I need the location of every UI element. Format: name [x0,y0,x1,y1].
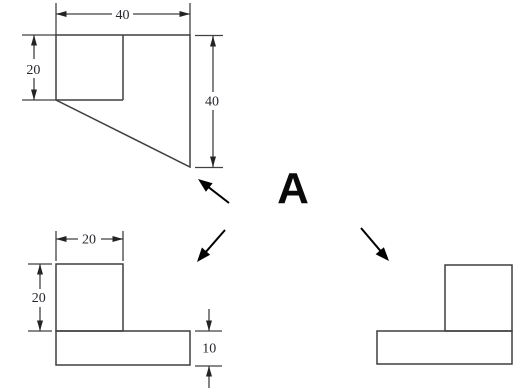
dim 40 right: dimension line [212,36,214,167]
dim 10 right: bottom extension line [195,365,222,367]
svg-text:40: 40 [205,95,219,110]
dim 20 left (side view): dimension line [39,264,41,331]
svg-text:20: 20 [26,63,40,78]
pointer arrow to front view: head [198,179,213,192]
side view base rectangle [56,331,190,365]
pointer arrow to pictorial view: head [376,247,389,261]
dim 20 left (side view): bottom extension line [28,330,52,332]
svg-text:20: 20 [82,233,96,248]
dim 40 top: left extension line [55,3,57,35]
dim 10 right: upper leader line [208,309,210,331]
front view inner horizontal edge [56,99,123,101]
dim 40 top: dimension line [56,13,190,15]
pointer arrow to pictorial view: shaft [361,228,382,253]
dim 20 left: up arrowhead [31,35,37,46]
dim 10 right: top extension line [195,330,222,332]
dim 20 left (side view): top extension line [28,263,52,265]
dim 40 right: up arrowhead [210,36,216,47]
dim 20 top (side view): left arrowhead [56,236,67,242]
dim 20 left (side view): up arrowhead [37,264,43,275]
dim 10 right: lower leader line [208,366,210,388]
dim 10 right: up arrowhead [206,366,212,377]
side view upright rectangle [56,264,123,331]
dim 10 right: down arrowhead [206,321,212,332]
front view outline [56,35,190,167]
pictorial view upright square [445,265,512,331]
dim 20 top (side view): left extension line [55,231,57,261]
svg-text:A: A [277,164,309,213]
pictorial view base rectangle [377,331,512,364]
dim 40 right: down arrowhead [210,157,216,168]
dim 20 top (side view): right extension line [122,231,124,261]
pointer arrow to side view: head [197,248,210,263]
dim 40 right: top extension line [195,35,223,37]
svg-text:10: 10 [202,341,216,356]
front view inner vertical edge [122,35,124,100]
dim 40 right: bottom extension line [195,167,223,169]
dim 20 left: bottom extension line [22,99,56,101]
dim 40 top: right arrowhead [180,11,191,17]
svg-text:20: 20 [32,291,46,306]
pointer arrow to front view: shaft [206,185,229,203]
dim 40 top: right extension line [189,3,191,35]
pointer arrow to side view: shaft [204,230,225,254]
svg-text:40: 40 [116,8,130,23]
dim 20 top (side view): dimension line [56,238,123,240]
dim 20 left (side view): down arrowhead [37,321,43,332]
dim 20 left: dimension line [33,35,35,100]
dim 20 top (side view): right arrowhead [113,236,124,242]
dim 20 left: down arrowhead [31,90,37,101]
dim 20 left: top extension line [22,34,56,36]
dim 40 top: left arrowhead [56,11,67,17]
